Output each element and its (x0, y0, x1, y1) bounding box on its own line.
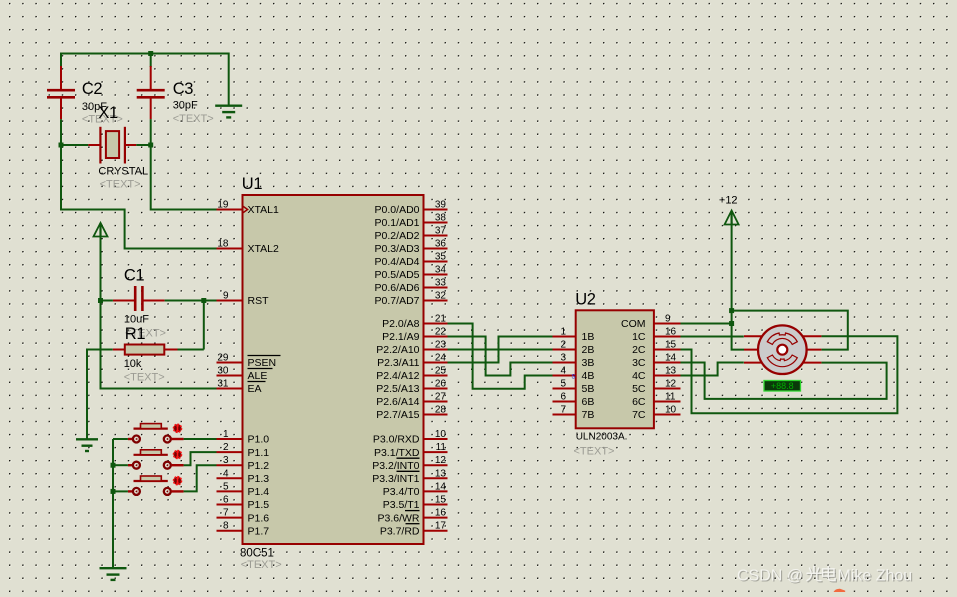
svg-text:10: 10 (665, 405, 677, 416)
U1 pin 3 P1.2 (217, 455, 270, 472)
svg-text:4B: 4B (582, 370, 595, 382)
capacitor C3 (137, 66, 165, 119)
svg-text:6B: 6B (582, 396, 595, 408)
label +12 (719, 195, 738, 207)
svg-text:P2.3/A11: P2.3/A11 (377, 357, 420, 369)
push button 2 (P1.1) (128, 450, 184, 469)
svg-text:7C: 7C (632, 409, 646, 421)
U2 pin 12 5C (632, 379, 680, 396)
node junction VCC/C1 (98, 298, 103, 303)
label U1 <TEXT> (241, 559, 282, 571)
op-amp U2 body (ULN2003A) (576, 310, 654, 428)
label X1 <TEXT> (100, 179, 141, 191)
svg-text:+88.8: +88.8 (771, 381, 794, 391)
capacitor C1 (113, 286, 165, 311)
svg-text:P1.2: P1.2 (248, 460, 270, 472)
U2 pin 4 4B (553, 366, 595, 383)
svg-text:7: 7 (223, 508, 229, 519)
U1 pin 5 P1.4 (217, 481, 270, 498)
resistor R1 (113, 345, 178, 355)
U2 pin 7 7B (553, 405, 595, 422)
U2 pin 3 3B (553, 353, 595, 370)
svg-text:13: 13 (435, 468, 447, 479)
svg-text:13: 13 (665, 366, 677, 377)
U1 pin 7 P1.6 (217, 508, 270, 525)
svg-text:7: 7 (560, 405, 566, 416)
svg-text:27: 27 (435, 392, 447, 403)
svg-text:3: 3 (560, 353, 566, 364)
svg-text:+12: +12 (719, 195, 738, 207)
wire 1C to motor left-top (681, 336, 744, 338)
U1 pin 8 P1.7 (217, 521, 270, 538)
label X1 CRYSTAL (98, 166, 148, 178)
U1 pin 21 P2.0/A8 (382, 314, 447, 331)
wire crystal right to C3 (136, 144, 150, 146)
svg-text:U1: U1 (242, 175, 263, 193)
push button 1 (P1.0) (128, 424, 184, 443)
svg-text:P1.0: P1.0 (248, 434, 270, 446)
U1 pin 11 P3.1/TXD (374, 442, 448, 459)
svg-text:X1: X1 (98, 104, 118, 122)
svg-text:8: 8 (223, 521, 229, 532)
label X1 ref (98, 104, 118, 122)
ground (R1) (76, 439, 98, 451)
U2 pin 9 COM (621, 314, 681, 331)
svg-text:37: 37 (435, 226, 447, 237)
wire VCC to C1 (101, 300, 113, 302)
U1 pin 37 P0.2/AD2 (375, 226, 448, 243)
wire button2 left (113, 464, 128, 466)
svg-text:P1.5: P1.5 (248, 499, 270, 511)
svg-text:24: 24 (435, 353, 447, 364)
U1 pin 13 P3.3/INT1 (372, 468, 447, 485)
svg-text:P3.4/T0: P3.4/T0 (383, 486, 420, 498)
push button 3 (P1.2) (128, 476, 184, 495)
U1 pin 17 P3.7/RD (380, 521, 448, 538)
U2 pin 5 5B (553, 379, 595, 396)
svg-text:P0.5/AD5: P0.5/AD5 (375, 269, 420, 281)
svg-text:34: 34 (435, 265, 447, 276)
svg-text:P3.1/TXD: P3.1/TXD (374, 447, 420, 459)
svg-text:P0.0/AD0: P0.0/AD0 (375, 204, 420, 216)
wire 2C to motor right-top (681, 336, 898, 413)
svg-text:4C: 4C (632, 370, 646, 382)
svg-text:32: 32 (435, 291, 447, 302)
label C2 value 30pF (82, 101, 107, 113)
svg-text:CSDN @: CSDN @ (737, 568, 803, 585)
motor speed display +88.8 (764, 381, 801, 392)
U1 pin 18 XTAL2 (217, 239, 279, 256)
svg-text:11: 11 (665, 392, 676, 403)
U2 pin 6 6B (553, 392, 595, 409)
svg-text:P3.5/T1: P3.5/T1 (383, 499, 420, 511)
wire +12 branch to motor right-middle (732, 311, 848, 350)
U2 pin 15 2C (632, 340, 680, 357)
wire 3C to motor right-bottom (681, 363, 887, 399)
wire 4C to motor left-bottom (681, 363, 744, 376)
U2 pin 1 1B (553, 327, 595, 344)
wire button1 to P1.0 (184, 438, 217, 440)
wire VCC rail down to EA (101, 236, 217, 388)
svg-text:29: 29 (217, 353, 229, 364)
svg-text:P1.7: P1.7 (248, 525, 270, 537)
label R1 <TEXT> (124, 372, 165, 384)
orange logo fragment (834, 589, 846, 592)
svg-text:5C: 5C (632, 383, 646, 395)
label C1 value 10uF (124, 314, 149, 326)
U1 pin 36 P0.3/AD3 (375, 239, 448, 256)
label U1 80C51 (240, 548, 274, 560)
svg-text:P2.1/A9: P2.1/A9 (382, 331, 420, 343)
svg-text:6C: 6C (632, 396, 646, 408)
svg-text:9: 9 (665, 314, 671, 325)
svg-text:U2: U2 (575, 290, 596, 308)
svg-text:25: 25 (435, 366, 447, 377)
U1 pin 1 P1.0 (217, 429, 270, 446)
svg-text:80C51: 80C51 (240, 548, 274, 560)
U1 pin 14 P3.4/T0 (383, 481, 448, 498)
svg-text:14: 14 (435, 481, 447, 492)
U1 pin 26 P2.5/A13 (376, 379, 447, 396)
svg-text:R1: R1 (125, 325, 146, 343)
svg-text:P3.3/INT1: P3.3/INT1 (372, 473, 419, 485)
U1 pin 39 P0.0/AD0 (375, 200, 448, 217)
capacitor C2 (47, 66, 75, 119)
svg-text:12: 12 (665, 379, 677, 390)
svg-text:15: 15 (435, 495, 447, 506)
svg-text:Mike Zhou: Mike Zhou (838, 568, 913, 585)
svg-text:2: 2 (560, 340, 566, 351)
wire buttons common vertical to ground (112, 439, 114, 568)
U1 pin 6 P1.5 (217, 495, 270, 512)
U1 pin 25 P2.4/A12 (376, 366, 447, 383)
node junction +12/COM (729, 321, 734, 326)
svg-text:17: 17 (435, 521, 447, 532)
svg-text:P1.6: P1.6 (248, 512, 270, 524)
svg-text:19: 19 (217, 200, 229, 211)
U1 pin 2 P1.1 (217, 442, 270, 459)
svg-text:EA: EA (248, 383, 262, 395)
svg-text:4: 4 (223, 468, 229, 479)
label R1 value 10k (124, 358, 142, 370)
svg-text:14: 14 (665, 353, 677, 364)
svg-text:2B: 2B (582, 344, 595, 356)
label U2 ULN2003A. (576, 432, 628, 443)
svg-text:10uF: 10uF (124, 314, 149, 326)
svg-text:16: 16 (435, 508, 447, 519)
svg-text:<TEXT>: <TEXT> (100, 179, 141, 191)
U1 pin 33 P0.6/AD6 (375, 278, 448, 295)
U2 pin 10 7C (632, 405, 680, 422)
U2 pin 13 4C (632, 366, 680, 383)
svg-text:15: 15 (665, 340, 677, 351)
node junction button3 common (111, 489, 116, 494)
svg-text:COM: COM (621, 318, 646, 330)
watermark CSDN @GuangDian Mike Zhou (737, 566, 913, 585)
svg-text:P0.3/AD3: P0.3/AD3 (375, 243, 420, 255)
label U2 ref (575, 290, 596, 308)
svg-text:6: 6 (560, 392, 566, 403)
svg-text:7B: 7B (582, 409, 595, 421)
U1 pin 4 P1.3 (217, 468, 270, 485)
node junction C2/crystal (59, 143, 64, 148)
svg-text:P0.6/AD6: P0.6/AD6 (375, 282, 420, 294)
svg-text:<TEXT>: <TEXT> (173, 113, 214, 125)
svg-text:5: 5 (560, 379, 566, 390)
label U1 ref (242, 175, 263, 193)
svg-text:P2.4/A12: P2.4/A12 (376, 370, 419, 382)
svg-text:3B: 3B (582, 357, 595, 369)
U1 pin 9 RST (217, 291, 270, 308)
svg-text:5: 5 (223, 481, 229, 492)
wire P2.2 to 2B (448, 349, 553, 351)
node junction C3/crystal (148, 143, 153, 148)
svg-text:12: 12 (435, 455, 447, 466)
svg-text:P2.2/A10: P2.2/A10 (376, 344, 419, 356)
U1 pin 31 EA (217, 379, 266, 396)
wire C3 top stub rail (150, 54, 152, 68)
svg-text:28: 28 (435, 405, 447, 416)
svg-text:1: 1 (223, 429, 229, 440)
U1 pin 19 XTAL1 (217, 200, 279, 217)
label C2 ref (82, 80, 103, 98)
wire RST down to R1 (203, 301, 205, 350)
wire C1 to RST (165, 300, 217, 302)
U2 pin 2 2B (553, 340, 595, 357)
svg-text:P1.3: P1.3 (248, 473, 270, 485)
wire P2.0 to 4B (448, 324, 553, 389)
svg-text:26: 26 (435, 379, 447, 390)
label C3 <TEXT> (173, 113, 214, 125)
svg-text:ULN2003A.: ULN2003A. (576, 432, 628, 443)
svg-text:P2.5/A13: P2.5/A13 (376, 383, 419, 395)
svg-text:P2.6/A14: P2.6/A14 (376, 396, 419, 408)
svg-text:P1.1: P1.1 (248, 447, 270, 459)
svg-text:P1.4: P1.4 (248, 486, 270, 498)
svg-text:3: 3 (223, 455, 229, 466)
label U2 <TEXT> (574, 446, 615, 458)
wire P2.3 to 1B (448, 337, 553, 363)
U1 pin 12 P3.2/INT0 (372, 455, 447, 472)
motor M1 (stepper) (744, 325, 821, 374)
U1 pin 16 P3.6/WR (377, 508, 447, 525)
svg-text:11: 11 (436, 442, 447, 453)
wire P2.1 to 3B (448, 337, 553, 376)
U1 pin 27 P2.6/A14 (376, 392, 447, 409)
svg-text:P3.2/INT0: P3.2/INT0 (372, 460, 419, 472)
node junction RST/R1 (201, 298, 206, 303)
svg-text:XTAL2: XTAL2 (248, 243, 279, 255)
wire COM to +12 (681, 323, 732, 325)
svg-text:P0.2/AD2: P0.2/AD2 (375, 230, 420, 242)
svg-text:39: 39 (435, 200, 447, 211)
svg-text:s: s (572, 372, 576, 381)
svg-text:31: 31 (217, 379, 229, 390)
U1 pin 35 P0.4/AD4 (375, 252, 448, 269)
U1 pin 29 PSEN (217, 353, 281, 370)
wire C2 to crystal left (61, 144, 88, 146)
label R1 ref (125, 325, 146, 343)
svg-text:4: 4 (560, 366, 566, 377)
svg-text:2: 2 (223, 442, 229, 453)
svg-text:21: 21 (435, 314, 447, 325)
svg-text:P0.4/AD4: P0.4/AD4 (375, 256, 420, 268)
U1 pin 10 P3.0/RXD (373, 429, 448, 446)
svg-text:10k: 10k (124, 358, 142, 370)
svg-text:36: 36 (435, 239, 447, 250)
svg-text:P3.6/WR: P3.6/WR (377, 512, 419, 524)
svg-text:<TEXT>: <TEXT> (574, 446, 615, 458)
svg-text:1C: 1C (632, 331, 646, 343)
svg-text:P0.7/AD7: P0.7/AD7 (375, 295, 420, 307)
svg-text:<TEXT>: <TEXT> (241, 559, 282, 571)
power +12 arrow (725, 211, 739, 225)
svg-text:P2.0/A8: P2.0/A8 (382, 318, 420, 330)
label C1 ref (124, 267, 145, 285)
U2 pin 16 1C (632, 327, 680, 344)
U1 pin 22 P2.1/A9 (382, 327, 447, 344)
svg-text:22: 22 (435, 327, 447, 338)
U1 pin 34 P0.5/AD5 (375, 265, 448, 282)
crystal X1 (88, 127, 136, 164)
label C3 ref (173, 80, 194, 98)
svg-text:<TEXT>: <TEXT> (124, 372, 165, 384)
svg-text:16: 16 (665, 327, 677, 338)
wire button2 to P1.1 (184, 452, 217, 465)
svg-text:18: 18 (217, 239, 229, 250)
svg-text:P3.0/RXD: P3.0/RXD (373, 434, 420, 446)
svg-text:6: 6 (223, 495, 229, 506)
node junction +12 branch (729, 308, 734, 313)
svg-text:XTAL1: XTAL1 (248, 204, 279, 216)
svg-text:5B: 5B (582, 383, 595, 395)
svg-text:ALE: ALE (248, 370, 268, 382)
U1 pin 23 P2.2/A10 (376, 340, 447, 357)
node junction button2 common (111, 463, 116, 468)
wire +12 rail to motor left-middle (732, 222, 744, 350)
svg-text:2C: 2C (632, 344, 646, 356)
svg-text:35: 35 (435, 252, 447, 263)
svg-text:CRYSTAL: CRYSTAL (98, 166, 148, 178)
wire C3 to XTAL1 (151, 119, 217, 209)
svg-text:30: 30 (217, 366, 229, 377)
svg-text:23: 23 (435, 340, 447, 351)
svg-text:C3: C3 (173, 80, 194, 98)
label C3 value 30pF (173, 100, 198, 112)
label C2 <TEXT> (82, 114, 123, 126)
svg-text:38: 38 (435, 213, 447, 224)
svg-text:RST: RST (248, 295, 270, 307)
svg-text:P2.7/A15: P2.7/A15 (376, 409, 419, 421)
svg-text:9: 9 (223, 291, 229, 302)
wire button3 left (113, 490, 128, 492)
svg-text:P0.1/AD1: P0.1/AD1 (375, 217, 420, 229)
svg-text:10: 10 (435, 429, 447, 440)
wire R1 left to ground (87, 350, 113, 440)
U1 pin 24 P2.3/A11 (377, 353, 447, 370)
wire button1 left (113, 438, 128, 440)
node marker (blue) at 4B (572, 372, 576, 381)
U1 pin 15 P3.5/T1 (383, 495, 448, 512)
node junction top rail / C3 (148, 51, 153, 56)
svg-text:C2: C2 (82, 80, 103, 98)
wire C2 to XTAL2 (61, 119, 217, 248)
ground (crystal rail) (215, 106, 242, 118)
U1 pin 30 ALE (217, 366, 273, 383)
label C1 <TEXT> (125, 328, 166, 340)
op-amp U1 body (80C51) (243, 195, 424, 544)
svg-text:PSEN: PSEN (248, 357, 277, 369)
svg-text:1B: 1B (582, 331, 595, 343)
svg-text:33: 33 (435, 278, 447, 289)
svg-text:C1: C1 (124, 267, 145, 285)
svg-text:30pF: 30pF (173, 100, 198, 112)
U1 pin 28 P2.7/A15 (376, 405, 447, 422)
svg-text:1: 1 (560, 327, 566, 338)
U2 pin 14 3C (632, 353, 680, 370)
U1 pin 32 P0.7/AD7 (375, 291, 448, 308)
svg-text:3C: 3C (632, 357, 646, 369)
wire button3 to P1.2 (184, 465, 217, 491)
wire R1 right to RST net (178, 349, 204, 351)
U1 pin 38 P0.1/AD1 (375, 213, 448, 230)
U2 pin 11 6C (632, 392, 680, 409)
svg-text:P3.7/RD: P3.7/RD (380, 525, 420, 537)
ground (buttons) (100, 568, 127, 580)
power +5V arrow (94, 223, 108, 237)
wire top rail C2-C3-ground (61, 54, 229, 106)
